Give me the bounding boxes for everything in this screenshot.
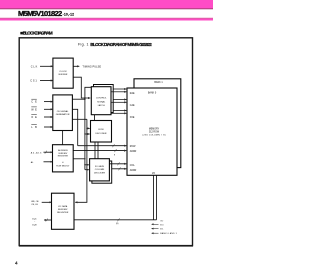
svg-text:TIMING PULSE: TIMING PULSE xyxy=(82,66,101,69)
wire spine V2 xyxy=(85,87,93,98)
svg-text:RAE: RAE xyxy=(130,92,135,95)
timing pulse output xyxy=(73,66,101,69)
wire latch out RAE pair xyxy=(113,88,126,90)
node junction xyxy=(84,97,85,98)
svg-text:DECODER: DECODER xyxy=(96,133,107,135)
svg-text:DECODER: DECODER xyxy=(94,173,105,175)
wire addr out 2 xyxy=(73,158,85,160)
svg-text:ADDR: ADDR xyxy=(130,169,137,172)
svg-text:BUFFER/: BUFFER/ xyxy=(58,209,68,211)
svg-text:CS1: CS1 xyxy=(30,80,37,83)
address buffer box xyxy=(53,145,74,172)
input A0-A16 xyxy=(31,151,53,155)
wire control out 3 xyxy=(72,118,87,120)
svg-text:COL.: COL. xyxy=(130,165,136,167)
svg-text:BANK 0: BANK 0 xyxy=(148,91,157,94)
wire control out 2 xyxy=(72,109,77,145)
wire coldec feed 1 xyxy=(85,164,89,166)
svg-text:I/OE: I/OE xyxy=(130,117,135,119)
svg-text:REGISTER: REGISTER xyxy=(57,212,69,214)
legend row 1 xyxy=(152,224,165,226)
input WE OE xyxy=(31,201,51,206)
svg-text:COLUMN: COLUMN xyxy=(95,169,105,171)
svg-text:BLOCK DIAGRAM OF M5M5V101822: BLOCK DIAGRAM OF M5M5V101822 xyxy=(90,42,152,47)
svg-text:4: 4 xyxy=(15,260,18,265)
svg-text:CE, LB: CE, LB xyxy=(31,204,38,206)
svg-text:CE: CE xyxy=(31,101,37,104)
column decoder box (shadow) xyxy=(92,161,112,183)
svg-text:512 ROW: 512 ROW xyxy=(149,131,160,133)
input CS1 xyxy=(30,80,53,83)
legend row 2 xyxy=(152,229,165,231)
wire clock to latch xyxy=(73,77,90,98)
svg-text:ROW: ROW xyxy=(130,146,136,148)
svg-text:WE, OE: WE, OE xyxy=(31,201,39,203)
svg-text:CLK: CLK xyxy=(31,66,38,69)
wire latch out CAE pair xyxy=(113,99,126,101)
wire coldec feed 2 xyxy=(85,169,89,171)
svg-text:ROW SELECT: ROW SELECT xyxy=(56,165,70,167)
wire spine V3 xyxy=(75,119,87,202)
pink rule under title xyxy=(0,17,213,20)
svg-text:OE: OE xyxy=(31,116,37,119)
svg-text:I/O GATE: I/O GATE xyxy=(95,165,105,168)
I/O data buffer box xyxy=(52,193,75,229)
input CLK xyxy=(31,66,53,69)
input WE xyxy=(31,107,53,111)
input AL xyxy=(31,161,53,164)
svg-text:CAE: CAE xyxy=(130,104,135,107)
svg-text:LB: LB xyxy=(31,126,37,129)
clock buffer box xyxy=(53,58,73,88)
svg-text:(256 COLUMN × 8): (256 COLUMN × 8) xyxy=(143,134,166,137)
wire to row decoder 1 xyxy=(87,127,90,129)
control signal latch box (shadow) xyxy=(94,85,114,113)
figure frame xyxy=(19,38,192,246)
svg-text:A0-A16: A0-A16 xyxy=(31,151,42,154)
svg-text:I/O: I/O xyxy=(161,220,164,222)
svg-text:I/O: I/O xyxy=(152,173,155,175)
wire DQ bus xyxy=(74,218,157,225)
wire row bus B xyxy=(73,149,126,156)
svg-text:ADDRESS: ADDRESS xyxy=(58,149,68,152)
svg-text:BUFFER: BUFFER xyxy=(59,74,68,76)
wire bank IO pair xyxy=(153,175,155,220)
svg-text:CONTROL: CONTROL xyxy=(96,98,107,100)
wire control out 1 xyxy=(72,98,85,100)
svg-text:GENERATOR: GENERATOR xyxy=(56,113,70,116)
svg-text:SIGNAL: SIGNAL xyxy=(97,100,106,103)
wire latch to row decoder xyxy=(94,115,96,121)
row decoder box xyxy=(91,121,112,143)
wire col bus 2 xyxy=(112,167,127,170)
svg-text:BANK 1: BANK 1 xyxy=(154,81,163,84)
control buffer box xyxy=(53,95,73,131)
bank 0 box (front) xyxy=(127,88,177,175)
input OE xyxy=(31,115,53,119)
input DQ1-DQ8 xyxy=(32,218,51,226)
svg-text:REGISTER: REGISTER xyxy=(58,155,69,157)
wire control to address buffer xyxy=(62,131,64,145)
svg-text:ROW: ROW xyxy=(98,129,104,131)
wire latch out IOE pair xyxy=(113,110,126,112)
control signal latch box xyxy=(91,87,111,115)
wire to row decoder 2 xyxy=(85,133,90,135)
wire col bus 1 xyxy=(109,162,126,165)
pink header band xyxy=(0,0,213,9)
input LB xyxy=(31,125,53,129)
input CE xyxy=(31,99,53,103)
svg-text:MEMORY: MEMORY xyxy=(149,128,160,130)
wire rowdec to coldec pair xyxy=(94,142,96,159)
svg-text:BANK 0 AND 1: BANK 0 AND 1 xyxy=(160,232,177,235)
node COL ADDR label xyxy=(130,165,137,172)
svg-text:-10,-12: -10,-12 xyxy=(63,13,75,17)
svg-text:Fig. 1: Fig. 1 xyxy=(78,43,89,47)
svg-text:M5M5V101822: M5M5V101822 xyxy=(18,9,62,18)
bank 1 box (back) xyxy=(134,79,181,168)
node ROW ADDR label xyxy=(130,146,137,153)
svg-text:■ BLOCK DIAGRAM: ■ BLOCK DIAGRAM xyxy=(20,30,52,36)
column decoder box xyxy=(90,159,110,181)
bank memory label xyxy=(143,128,166,136)
wire row bus A xyxy=(78,144,127,147)
svg-text:I/O DATA: I/O DATA xyxy=(58,205,68,208)
svg-text:(8): (8) xyxy=(116,223,119,225)
svg-text:LATCH: LATCH xyxy=(98,104,105,107)
svg-text:WE: WE xyxy=(31,108,37,111)
legend row 3 xyxy=(152,232,178,235)
svg-text:ADDR: ADDR xyxy=(130,150,137,153)
svg-text:CLOCK: CLOCK xyxy=(59,71,67,73)
svg-text:CE SIGNAL: CE SIGNAL xyxy=(57,110,69,113)
